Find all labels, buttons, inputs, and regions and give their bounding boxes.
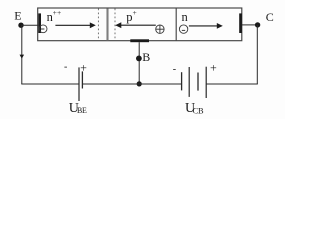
base metal contact bar <box>130 39 149 42</box>
depletion edge dashed line (base side) <box>114 9 116 41</box>
electron drift arrow in collector region <box>189 23 223 29</box>
svg-text:+: + <box>80 61 87 75</box>
svg-text:E: E <box>14 9 21 23</box>
wire E dot to emitter contact <box>21 24 38 26</box>
svg-text:++: ++ <box>53 8 62 17</box>
svg-text:-: - <box>64 62 67 73</box>
B-C metallurgical junction line <box>175 9 177 41</box>
wire collector contact to C dot <box>242 24 258 26</box>
electron drift arrow in emitter region <box>55 22 95 28</box>
node E <box>18 23 23 28</box>
region label p+ <box>126 8 137 24</box>
node B <box>136 56 142 62</box>
svg-text:C: C <box>266 10 274 24</box>
wire bottom rail right segment <box>206 83 258 85</box>
svg-text:-: - <box>173 64 176 75</box>
wire base contact down to node B <box>138 42 140 84</box>
battery U_BE long plate <box>78 67 80 101</box>
emitter metal contact bar <box>38 13 41 33</box>
battery U_CB long plate 2 <box>205 67 207 98</box>
wire bottom rail middle segment <box>82 83 181 85</box>
battery U_CB long plate 1 <box>188 67 190 97</box>
collector metal contact bar <box>239 13 242 33</box>
region label n++ <box>47 8 62 24</box>
hole drift arrow in base region <box>115 22 156 28</box>
E-B metallurgical junction line <box>106 9 108 41</box>
battery U_CB short plate 1 <box>181 72 183 90</box>
battery U_CB value label <box>185 101 204 116</box>
junction dot on bottom rail <box>137 81 142 86</box>
svg-text:B: B <box>142 50 150 64</box>
node C <box>255 22 260 27</box>
svg-text:n: n <box>182 10 189 24</box>
svg-text:+: + <box>133 8 137 17</box>
hole symbol in base <box>156 25 164 33</box>
wire bottom rail left segment <box>21 83 79 85</box>
battery U_BE short plate <box>81 71 83 88</box>
svg-text:BE: BE <box>77 106 87 115</box>
battery U_BE value label <box>69 101 87 116</box>
semiconductor body outline <box>38 8 242 41</box>
electron symbol in emitter <box>39 25 47 33</box>
svg-text:CB: CB <box>193 106 204 115</box>
arrowhead on emitter wire (current direction) <box>20 55 25 59</box>
battery U_CB short plate 2 <box>197 73 199 91</box>
svg-text:p: p <box>126 10 132 24</box>
wire C vertical down <box>256 25 258 84</box>
electron symbol in collector <box>179 25 187 33</box>
wire E vertical down <box>21 25 23 84</box>
svg-text:+: + <box>210 60 217 74</box>
depletion edge dashed line (emitter side) <box>97 9 99 41</box>
